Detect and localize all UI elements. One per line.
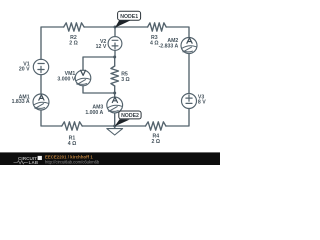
svg-text:http://circuitlab.com/c6ukm6b: http://circuitlab.com/c6ukm6b <box>45 159 100 164</box>
wire AM3 bottom lead <box>114 113 116 126</box>
footer watermark bar <box>0 152 220 165</box>
node junction dot VM1 bottom/R5/AM3 <box>113 92 116 95</box>
voltage source V1 <box>33 59 48 74</box>
wire V2 bottom to node junction <box>114 50 116 57</box>
ammeter AM1 <box>33 94 49 110</box>
svg-text:4 Ω: 4 Ω <box>68 141 77 147</box>
node junction dot V2/VM1/R5 <box>113 56 116 59</box>
wire V1 to AM1 (left column) <box>40 75 42 95</box>
svg-text:3 Ω: 3 Ω <box>121 77 130 83</box>
svg-text:12 V: 12 V <box>96 44 107 50</box>
voltage source V3 <box>182 94 197 109</box>
meter letter A of AM1 <box>39 95 44 100</box>
wire R5 top lead <box>114 57 116 66</box>
node junction dot at NODE1 <box>114 26 117 29</box>
wire top-left vertical (V1 top to top wire) <box>41 27 64 60</box>
meter letter A of AM3 <box>112 97 117 102</box>
ammeter AM3 <box>107 97 123 113</box>
node junction dot at NODE2 <box>113 125 116 128</box>
wire VM1 top branch <box>83 57 115 70</box>
resistor R1 <box>62 122 82 130</box>
wire AM1 bottom to bottom-left corner <box>41 110 62 126</box>
resistor R5 <box>111 66 119 86</box>
svg-text:-2.833 A: -2.833 A <box>159 44 179 50</box>
svg-text:3.000 V: 3.000 V <box>57 76 75 82</box>
node NODE1 flag <box>115 11 141 27</box>
svg-text:4 Ω: 4 Ω <box>150 40 159 46</box>
meter letter V of VM1 <box>81 70 86 75</box>
resistor R3 <box>148 23 167 31</box>
node NODE2 flag <box>115 111 141 126</box>
wire AM2 bottom to V3 top <box>188 54 190 94</box>
wire bottom middle (R1 to R4 through NODE2 junction) <box>82 125 145 127</box>
wire VM1 bottom branch <box>83 86 115 93</box>
svg-text:8 V: 8 V <box>198 99 206 105</box>
meter letter A of AM2 <box>187 38 192 43</box>
svg-text:1.833 A: 1.833 A <box>12 99 30 105</box>
wire V2 top lead <box>114 27 116 37</box>
ground symbol <box>114 126 116 129</box>
resistor R4 <box>146 122 166 130</box>
svg-text:LAB: LAB <box>29 160 39 165</box>
wire top middle (R2 to R3 through NODE1 junction) <box>84 26 148 28</box>
svg-text:2 Ω: 2 Ω <box>152 139 161 145</box>
resistor R2 <box>64 23 84 31</box>
svg-text:1.000 A: 1.000 A <box>85 110 103 116</box>
svg-text:NODE2: NODE2 <box>121 113 139 119</box>
wire top-right (R3 to AM2 top) <box>166 27 189 38</box>
wire R5 bottom lead <box>114 86 116 93</box>
wire bottom-right (R4 to V3 bottom) <box>166 109 189 127</box>
voltmeter VM1 <box>75 70 91 86</box>
voltage source V2 <box>108 37 122 51</box>
svg-text:NODE1: NODE1 <box>120 14 138 20</box>
wire AM3 top lead <box>114 93 116 97</box>
svg-text:2 Ω: 2 Ω <box>69 40 78 46</box>
svg-text:20 V: 20 V <box>19 66 30 72</box>
ammeter AM2 <box>181 38 197 54</box>
